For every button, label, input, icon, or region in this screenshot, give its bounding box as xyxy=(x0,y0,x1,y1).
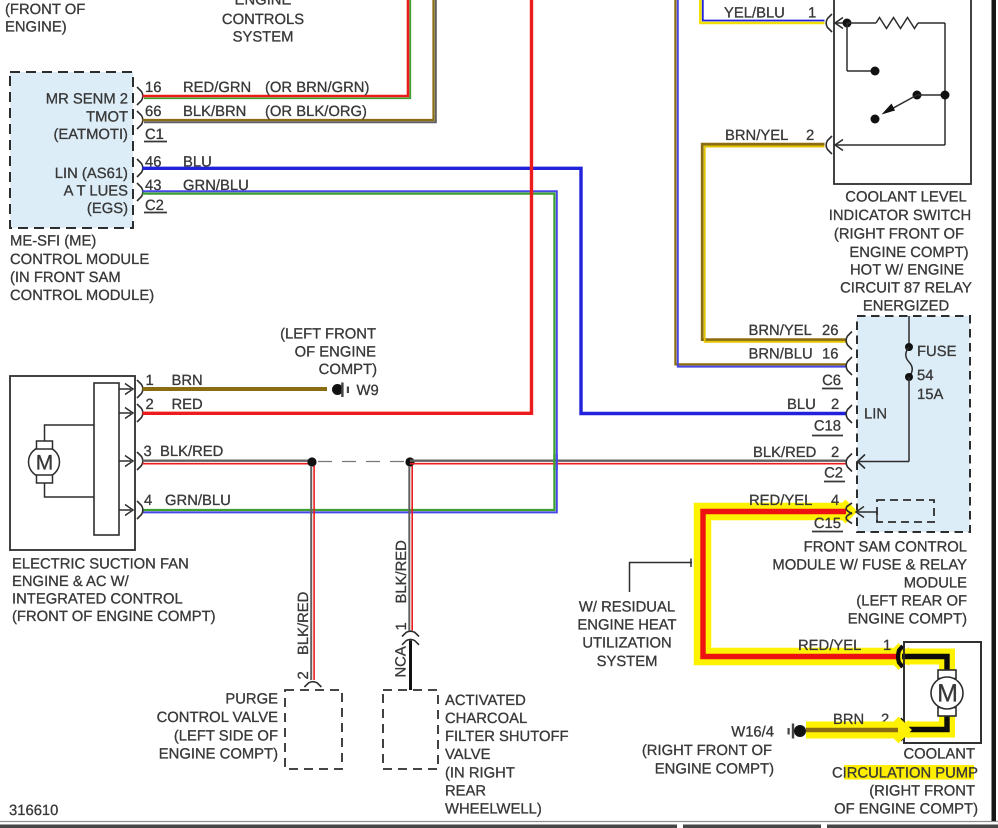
pump pin 1 xyxy=(883,638,903,667)
fuse 54 15A xyxy=(858,316,957,469)
wire RED/GRN pin16 to engine controls xyxy=(143,0,411,98)
wire RED fan pin2 to top xyxy=(143,0,532,413)
svg-text:ME-SFI (ME): ME-SFI (ME) xyxy=(10,234,96,250)
svg-text:1: 1 xyxy=(883,638,891,654)
svg-text:2: 2 xyxy=(831,397,839,413)
svg-text:CONTROLS: CONTROLS xyxy=(222,12,304,28)
label HOT W/ ENGINE CIRCUIT 87 RELAY ENERGIZED xyxy=(840,263,972,315)
label PURGE CONTROL VALVE xyxy=(157,692,279,763)
svg-text:INTEGRATED CONTROL: INTEGRATED CONTROL xyxy=(12,592,183,608)
svg-text:OF ENGINE: OF ENGINE xyxy=(295,345,377,361)
switch arm xyxy=(913,91,922,100)
svg-text:26: 26 xyxy=(822,323,838,339)
junction node 2 xyxy=(405,457,414,466)
coolant switch pin 2 xyxy=(826,136,843,154)
svg-text:RED/GRN: RED/GRN xyxy=(183,80,251,96)
svg-text:FRONT SAM CONTROL: FRONT SAM CONTROL xyxy=(804,540,967,556)
dashed internal rect SAM xyxy=(877,500,934,522)
svg-text:HOT W/ ENGINE: HOT W/ ENGINE xyxy=(850,263,964,279)
svg-text:CIRCUIT 87 RELAY: CIRCUIT 87 RELAY xyxy=(840,281,972,297)
wire BLK/RED drop to purge valve xyxy=(311,466,314,680)
svg-text:COMPT): COMPT) xyxy=(319,362,377,378)
connector label C18 xyxy=(812,419,843,436)
svg-text:CONTROL MODULE: CONTROL MODULE xyxy=(10,252,149,268)
coolant circulation pump box xyxy=(904,642,981,743)
svg-text:MR SENM 2: MR SENM 2 xyxy=(46,92,128,108)
svg-text:BLU: BLU xyxy=(787,397,816,413)
svg-text:316610: 316610 xyxy=(9,803,58,819)
label BLK/RED vertical charcoal xyxy=(394,540,410,630)
svg-text:(LEFT SIDE OF: (LEFT SIDE OF xyxy=(174,729,278,745)
svg-text:INDICATOR SWITCH: INDICATOR SWITCH xyxy=(829,208,972,224)
svg-text:ENGINE HEAT: ENGINE HEAT xyxy=(577,618,676,634)
svg-text:1: 1 xyxy=(146,373,154,389)
svg-text:BLK/BRN: BLK/BRN xyxy=(183,104,246,120)
svg-text:C18: C18 xyxy=(814,419,841,435)
wire YEL/BLU top to coolant switch pin1 xyxy=(700,0,824,23)
svg-text:2: 2 xyxy=(831,445,839,461)
SAM pin C2 BLK/RED xyxy=(753,445,852,472)
fan pin 2 xyxy=(119,397,154,422)
label COOLANT LEVEL INDICATOR SWITCH xyxy=(829,190,972,262)
svg-text:(FRONT OF: (FRONT OF xyxy=(5,2,85,18)
svg-text:ENGINE COMPT): ENGINE COMPT) xyxy=(848,612,967,628)
purge control valve box xyxy=(285,690,342,769)
label BLK/RED vertical purge xyxy=(296,592,312,680)
svg-text:M: M xyxy=(937,680,958,708)
label ELECTRIC SUCTION FAN xyxy=(12,557,216,626)
coolant switch internals xyxy=(836,18,950,146)
svg-text:(LEFT FRONT: (LEFT FRONT xyxy=(280,327,376,343)
svg-text:2: 2 xyxy=(806,128,814,144)
pin 43 ME-SFI xyxy=(137,178,161,201)
svg-text:BRN/BLU: BRN/BLU xyxy=(749,347,813,363)
svg-text:ENGINE): ENGINE) xyxy=(5,20,67,36)
pin 16 ME-SFI xyxy=(137,80,161,105)
svg-text:W9: W9 xyxy=(357,383,379,399)
svg-text:1: 1 xyxy=(808,6,816,22)
svg-text:BLK/RED: BLK/RED xyxy=(753,445,816,461)
svg-text:YEL/BLU: YEL/BLU xyxy=(724,6,785,22)
svg-text:C1: C1 xyxy=(145,127,164,143)
wire dashed unconnected BLK/RED xyxy=(318,461,404,463)
svg-text:A T LUES: A T LUES xyxy=(64,184,129,200)
purge pin 2 connector xyxy=(304,682,321,687)
svg-text:GRN/BLU: GRN/BLU xyxy=(183,178,249,194)
svg-text:FILTER SHUTOFF: FILTER SHUTOFF xyxy=(445,729,569,745)
svg-text:FUSE: FUSE xyxy=(917,344,957,360)
wire BLK/RED fan pin3 to junction 1 xyxy=(143,444,313,464)
connector label C6 xyxy=(822,373,843,389)
pointer line W/ RESIDUAL xyxy=(630,559,693,593)
svg-text:OF ENGINE COMPT): OF ENGINE COMPT) xyxy=(834,802,978,818)
svg-text:CHARCOAL: CHARCOAL xyxy=(445,711,527,727)
coolant switch pin 1 xyxy=(826,14,847,32)
svg-text:(RIGHT FRONT: (RIGHT FRONT xyxy=(869,784,975,800)
svg-text:ACTIVATED: ACTIVATED xyxy=(445,693,526,709)
svg-text:4: 4 xyxy=(831,493,839,509)
label FRONT SAM CONTROL MODULE xyxy=(772,540,967,628)
svg-text:(LEFT REAR OF: (LEFT REAR OF xyxy=(856,594,967,610)
label ME-SFI (ME) CONTROL MODULE xyxy=(10,234,154,305)
svg-text:ENGINE & AC W/: ENGINE & AC W/ xyxy=(12,574,130,590)
svg-text:VALVE: VALVE xyxy=(445,747,491,763)
connector label C15 xyxy=(812,516,843,532)
svg-text:66: 66 xyxy=(145,104,161,120)
SAM pin 2 LIN xyxy=(787,397,887,423)
svg-text:WHEELWELL): WHEELWELL) xyxy=(445,802,542,818)
label ENGINE CONTROLS SYSTEM xyxy=(222,0,304,46)
svg-text:16: 16 xyxy=(145,80,161,96)
motor M pump xyxy=(931,670,963,716)
wire BLU pin46 to SAM LIN C18 xyxy=(143,155,847,414)
pin 46 ME-SFI xyxy=(137,155,161,178)
svg-text:ENERGIZED: ENERGIZED xyxy=(863,299,949,315)
svg-text:RED/YEL: RED/YEL xyxy=(798,638,861,654)
svg-text:BRN/YEL: BRN/YEL xyxy=(725,128,788,144)
svg-text:MODULE W/ FUSE & RELAY: MODULE W/ FUSE & RELAY xyxy=(772,558,967,574)
motor M fan xyxy=(29,425,95,497)
svg-text:SYSTEM: SYSTEM xyxy=(233,30,294,46)
svg-text:C15: C15 xyxy=(814,516,841,532)
svg-text:4: 4 xyxy=(144,493,152,509)
svg-text:BRN/YEL: BRN/YEL xyxy=(749,323,812,339)
connector label C2 xyxy=(824,466,845,482)
svg-text:3: 3 xyxy=(144,444,152,460)
fan pin 3 xyxy=(119,444,152,470)
svg-text:16: 16 xyxy=(822,347,838,363)
label (FRONT OF ENGINE) xyxy=(5,2,85,36)
label COOLANT CIRCULATION PUMP xyxy=(832,747,978,818)
wire NCA black to charcoal valve xyxy=(409,641,412,691)
inline connector NCA xyxy=(394,631,420,677)
pin 66 ME-SFI xyxy=(137,104,161,129)
label (RIGHT FRONT OF ENGINE COMPT) for W16/4 xyxy=(642,743,774,778)
highlighted wire RED/YEL SAM C15 to coolant pump pin1 xyxy=(703,493,912,670)
splice W9 xyxy=(332,383,379,400)
svg-text:C6: C6 xyxy=(822,373,841,389)
svg-text:ENGINE COMPT): ENGINE COMPT) xyxy=(159,747,278,763)
highlighted wire inside pump xyxy=(899,647,947,738)
SAM pin C15 xyxy=(846,503,877,524)
svg-text:BLK/RED: BLK/RED xyxy=(160,444,223,460)
label (LEFT FRONT OF ENGINE COMPT) xyxy=(280,327,377,379)
ME-SFI control module box xyxy=(10,72,133,228)
svg-text:(RIGHT FRONT OF: (RIGHT FRONT OF xyxy=(834,227,964,243)
coolant level indicator switch box xyxy=(834,0,971,184)
electric suction fan box xyxy=(10,376,135,550)
wire BLK/RED junction2 to SAM C2 xyxy=(410,461,846,464)
SAM pin 16 xyxy=(749,347,853,376)
resistor xyxy=(876,18,918,29)
svg-text:LIN: LIN xyxy=(864,407,887,423)
highlighted wire BRN W16/4 to pump pin2 xyxy=(806,712,912,743)
svg-text:COOLANT LEVEL: COOLANT LEVEL xyxy=(845,190,966,206)
svg-text:(EGS): (EGS) xyxy=(87,201,128,217)
svg-text:GRN/BLU: GRN/BLU xyxy=(165,493,231,509)
svg-text:BLU: BLU xyxy=(183,155,212,171)
SAM pin 26 xyxy=(749,323,853,350)
label W/ RESIDUAL ENGINE HEAT UTILIZATION SYSTEM xyxy=(577,600,676,671)
svg-text:SYSTEM: SYSTEM xyxy=(597,654,658,670)
wire BLK/BRN pin66 to engine controls xyxy=(143,0,436,122)
svg-text:RED/YEL: RED/YEL xyxy=(749,493,812,509)
svg-text:(OR BLK/ORG): (OR BLK/ORG) xyxy=(265,104,367,120)
svg-text:54: 54 xyxy=(917,368,933,384)
fan pin 1 xyxy=(119,373,154,398)
svg-text:TMOT: TMOT xyxy=(86,110,128,126)
pump pin 2 xyxy=(881,712,903,740)
svg-text:COOLANT: COOLANT xyxy=(903,747,975,763)
front SAM control module box xyxy=(857,316,970,532)
svg-text:(RIGHT FRONT OF: (RIGHT FRONT OF xyxy=(642,743,772,759)
wire BRN/YEL coolant pin2 to SAM pin26 xyxy=(702,128,846,342)
connector label C2 xyxy=(144,198,167,214)
svg-text:W16/4: W16/4 xyxy=(731,725,774,741)
svg-text:(IN RIGHT: (IN RIGHT xyxy=(445,766,515,782)
svg-text:2: 2 xyxy=(146,397,154,413)
splice W16/4 xyxy=(731,724,806,741)
fan pin 4 xyxy=(119,493,152,519)
right page edge bar xyxy=(992,0,997,821)
wire BRN/BLU top to SAM pin16 xyxy=(675,0,846,367)
junction node 1 xyxy=(307,457,316,466)
svg-text:ELECTRIC SUCTION FAN: ELECTRIC SUCTION FAN xyxy=(12,557,189,573)
svg-text:2: 2 xyxy=(296,671,312,679)
svg-text:REAR: REAR xyxy=(445,784,486,800)
svg-text:RED: RED xyxy=(172,397,203,413)
svg-text:W/ RESIDUAL: W/ RESIDUAL xyxy=(579,600,675,616)
coolant pump box outline restroke xyxy=(904,642,981,743)
svg-text:C2: C2 xyxy=(145,198,164,214)
svg-text:MODULE: MODULE xyxy=(904,576,967,592)
svg-text:BRN: BRN xyxy=(833,712,864,728)
svg-text:ENGINE: ENGINE xyxy=(235,0,292,9)
bottom rule xyxy=(0,821,998,823)
svg-text:UTILIZATION: UTILIZATION xyxy=(582,636,671,652)
connector label C1 xyxy=(144,127,167,143)
svg-text:CONTROL MODULE): CONTROL MODULE) xyxy=(10,288,154,304)
svg-text:C2: C2 xyxy=(824,466,843,482)
svg-text:(IN FRONT SAM: (IN FRONT SAM xyxy=(10,270,121,286)
svg-text:(EATMOTI): (EATMOTI) xyxy=(53,127,128,143)
svg-text:ENGINE COMPT): ENGINE COMPT) xyxy=(655,762,774,778)
svg-text:M: M xyxy=(36,452,54,475)
activated charcoal filter shutoff valve box xyxy=(383,690,438,769)
svg-text:NCA: NCA xyxy=(394,646,410,677)
svg-text:LIN (AS61): LIN (AS61) xyxy=(55,166,128,182)
svg-text:PURGE: PURGE xyxy=(225,692,278,708)
label ACTIVATED CHARCOAL FILTER SHUTOFF VALVE xyxy=(445,693,569,818)
svg-text:(OR BRN/GRN): (OR BRN/GRN) xyxy=(265,80,369,96)
svg-text:CIRCULATION PUMP: CIRCULATION PUMP xyxy=(832,766,978,782)
svg-text:BRN: BRN xyxy=(172,373,203,389)
wire GRN/BLU pin43 to fan pin4 xyxy=(143,178,557,512)
wire BLK/RED drop to charcoal valve connector xyxy=(409,466,412,631)
svg-text:BLK/RED: BLK/RED xyxy=(394,540,410,603)
svg-text:CONTROL VALVE: CONTROL VALVE xyxy=(157,710,279,726)
svg-text:BLK/RED: BLK/RED xyxy=(296,592,312,655)
svg-text:(FRONT OF ENGINE COMPT): (FRONT OF ENGINE COMPT) xyxy=(12,609,216,625)
wire BRN fan pin1 to W9 xyxy=(143,373,328,389)
bottom table bar xyxy=(0,825,998,828)
wire GRN/BLU crossing patch xyxy=(554,454,556,470)
svg-text:1: 1 xyxy=(394,622,410,630)
svg-text:ENGINE COMPT): ENGINE COMPT) xyxy=(849,245,968,261)
svg-text:15A: 15A xyxy=(917,387,943,403)
